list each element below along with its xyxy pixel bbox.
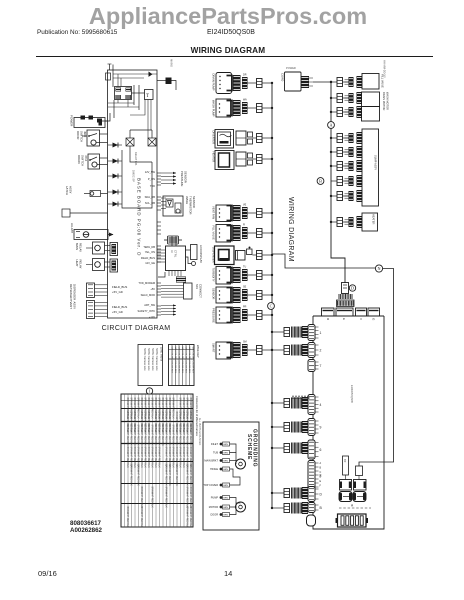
svg-text:BRN WHT RED BLK: BRN WHT RED BLK	[140, 487, 142, 509]
svg-text:WIRING DIAGRAM: WIRING DIAGRAM	[287, 197, 294, 262]
inline connector feed 9	[284, 423, 290, 432]
svg-text:GRN: GRN	[223, 485, 228, 487]
svg-text:BRN WHT RED BLK: BRN WHT RED BLK	[182, 425, 184, 447]
svg-text:7: 7	[320, 364, 322, 368]
wire right row b y181	[343, 180, 350, 182]
svg-text:FILL VALVE: FILL VALVE	[212, 226, 216, 240]
wire elbow bottom left	[100, 113, 110, 121]
svg-text:BRN WHT RED BLK: BRN WHT RED BLK	[126, 447, 128, 469]
connector stack right a y152	[349, 147, 354, 157]
wire right row b y152	[343, 151, 350, 153]
svg-text:SWITCH: SWITCH	[81, 155, 85, 166]
svg-text:WIR COLOR: WIR COLOR	[174, 347, 176, 360]
S01 connector	[184, 283, 193, 299]
inline connector DIVERTER	[257, 134, 263, 143]
wire VENT FAN to bus	[248, 212, 257, 214]
svg-text:+5V_GD: +5V_GD	[112, 290, 123, 294]
svg-text:SCHEME: SCHEME	[246, 434, 252, 460]
wire feed 9	[272, 426, 284, 428]
svg-text:EI24ID50QS0B: EI24ID50QS0B	[350, 385, 354, 403]
svg-text:RELAY: RELAY	[79, 260, 83, 269]
wire SMART bus join	[262, 349, 272, 351]
rounded end connector	[307, 515, 316, 526]
svg-text:BRN WHT RED BLK: BRN WHT RED BLK	[172, 425, 174, 447]
wire DISPENSER to bus	[253, 254, 257, 256]
wire TURBIDITY to bus	[248, 274, 257, 276]
board bottom inner labels	[112, 285, 127, 314]
junction FILL VALVE	[271, 232, 273, 234]
svg-text:BRN WHT RED BLK: BRN WHT RED BLK	[126, 507, 128, 529]
wire DRAIN PUMP to bus	[248, 82, 257, 84]
svg-text:BRN WHT RED BLK: BRN WHT RED BLK	[151, 487, 153, 509]
main board outline	[313, 316, 384, 529]
wire DISPENSER bus join	[262, 254, 272, 256]
svg-text:BRN WHT RED BLK: BRN WHT RED BLK	[137, 398, 139, 420]
svg-text:MAIN: MAIN	[75, 243, 79, 250]
aux box left	[62, 209, 70, 217]
secondary connector SENSOR	[242, 289, 248, 301]
wire SMART to bus	[248, 349, 257, 351]
wire DRAIN PUMP bus join	[262, 82, 272, 84]
wire feed D	[272, 492, 284, 494]
svg-text:BRN WHT RED BLK: BRN WHT RED BLK	[179, 447, 181, 469]
secondary connector SMART	[242, 344, 248, 356]
svg-text:S01: S01	[195, 284, 199, 289]
board top connector E	[336, 308, 353, 316]
svg-text:BRN WHT RED BLK: BRN WHT RED BLK	[140, 425, 142, 447]
svg-text:SHLD_MOD: SHLD_MOD	[141, 293, 156, 297]
svg-text:DRAIN PUMP: DRAIN PUMP	[212, 74, 216, 91]
wire HEATER bus join	[262, 158, 272, 160]
board edge connector B	[308, 503, 315, 513]
svg-text:09/16: 09/16	[38, 569, 57, 578]
UI bottom connector	[176, 277, 186, 283]
dark mark J1	[97, 119, 102, 123]
svg-text:WA: WA	[243, 99, 247, 102]
svg-text:BRN WHT RED BLK: BRN WHT RED BLK	[189, 465, 191, 487]
svg-text:SDA_DB: SDA_DB	[145, 195, 156, 199]
turbidity sensor assembly	[163, 196, 183, 216]
pin ticks 7	[315, 362, 319, 369]
svg-text:WIR COLOR: WIR COLOR	[188, 347, 190, 360]
svg-text:GRN: GRN	[223, 460, 228, 462]
secondary connector VENT FAN	[242, 207, 248, 219]
svg-text:THERMISTOR: THERMISTOR	[189, 196, 193, 214]
svg-text:B: B	[319, 179, 322, 184]
arrow marks harness	[292, 396, 310, 399]
svg-text:T: T	[146, 94, 149, 99]
grounding scheme box	[203, 422, 259, 530]
inline connector feed B	[284, 504, 290, 513]
board edge connector 2	[308, 343, 315, 358]
junction TURBIDITY	[271, 274, 273, 276]
svg-text:DOOR: DOOR	[211, 514, 219, 517]
inline connector DRAIN PUMP	[257, 79, 263, 88]
svg-text:NOTE: harness wire: NOTE: harness wire	[151, 348, 154, 371]
connector stack PRESSURE	[233, 307, 241, 323]
circle marker D	[349, 285, 355, 291]
connector stack feed D	[302, 487, 308, 499]
harness comb 1	[292, 327, 302, 338]
svg-text:RELAY: RELAY	[79, 243, 83, 252]
svg-text:BRN WHT RED BLK: BRN WHT RED BLK	[186, 425, 188, 447]
wire thermal to bus	[108, 234, 113, 236]
component FILL VALVE	[216, 225, 231, 243]
svg-text:BRN WHT RED BLK: BRN WHT RED BLK	[175, 465, 177, 487]
wire right row b y138	[343, 137, 350, 139]
power supply connector	[301, 76, 309, 88]
terminal block top right	[166, 78, 172, 85]
svg-text:DIVERTER: DIVERTER	[212, 131, 216, 145]
inline connector VENT FAN	[257, 209, 263, 218]
svg-text:WIRE KEY: WIRE KEY	[196, 345, 200, 358]
inline connector right y138	[337, 134, 343, 143]
component DRAIN PUMP	[216, 73, 232, 94]
component fill valve right	[362, 74, 379, 90]
secondary connector DRAIN PUMP	[242, 77, 248, 89]
inline connector right y181	[337, 177, 343, 186]
svg-text:A00262862: A00262862	[70, 527, 103, 534]
connector bracket WASH PUMP	[227, 101, 233, 116]
pin letters connector 8	[320, 462, 322, 488]
svg-text:DRAIN: DRAIN	[77, 155, 81, 164]
svg-text:TXD_MODEM: TXD_MODEM	[138, 281, 155, 285]
connector stack right a y138	[349, 133, 354, 143]
junction SMART	[271, 349, 273, 351]
UI control block	[166, 246, 186, 271]
stub wires above board	[109, 64, 111, 70]
wire right row y166	[331, 165, 337, 167]
pin ticks D	[315, 489, 319, 499]
wire top pair a	[113, 73, 157, 75]
relay K2 contact	[148, 138, 156, 146]
svg-text:HINGE: HINGE	[210, 468, 218, 471]
wire mid b	[108, 106, 139, 108]
svg-text:UI: UI	[170, 250, 174, 253]
svg-text:NOTE: harness wire: NOTE: harness wire	[155, 348, 158, 371]
connector stack feed 6	[302, 442, 308, 454]
board edge connector 9	[308, 419, 315, 436]
secondary connector TURBIDITY	[242, 269, 248, 281]
svg-text:1: 1	[320, 331, 322, 335]
svg-text:12V_GE: 12V_GE	[145, 261, 155, 265]
connector stack right b y98	[357, 92, 363, 104]
inline connector feed D	[284, 489, 290, 498]
svg-text:GRN: GRN	[223, 444, 228, 446]
svg-text:+12V: +12V	[149, 315, 155, 319]
connector bracket FILL VALVE	[227, 226, 233, 241]
svg-text:BRN WHT RED BLK: BRN WHT RED BLK	[133, 425, 135, 447]
ground lug 2	[236, 502, 246, 512]
capsule connector RY3	[339, 492, 352, 502]
sub circuit rect	[122, 150, 152, 208]
pin hatch y152	[345, 150, 349, 154]
svg-text:BRN WHT RED BLK: BRN WHT RED BLK	[133, 447, 135, 469]
wire TURBIDITY bus join	[262, 274, 272, 276]
wire right row b y98	[343, 97, 350, 99]
connector stack feed 9	[302, 421, 308, 433]
wire right row y112	[331, 111, 337, 113]
svg-text:COLOR KEY: COLOR KEY	[188, 361, 190, 374]
circle marker row 181	[317, 178, 324, 185]
svg-text:BRN WHT RED BLK: BRN WHT RED BLK	[189, 507, 191, 529]
connector stack FILL VALVE	[233, 225, 241, 241]
float switch box	[88, 154, 100, 169]
wire right row y152	[331, 151, 337, 153]
svg-text:SMART: SMART	[212, 343, 216, 353]
fuse F1	[106, 73, 111, 80]
svg-text:BRN WHT RED BLK: BRN WHT RED BLK	[179, 425, 181, 447]
connector stack feed 4	[302, 397, 308, 409]
relay module MAIN RELAY	[93, 242, 105, 254]
svg-text:TOP COVER: TOP COVER	[203, 484, 218, 487]
svg-text:VENT: VENT	[69, 302, 73, 310]
component WASH PUMP	[216, 99, 231, 117]
power cord box	[74, 118, 105, 128]
line view note box	[138, 345, 163, 386]
junction WASH PUMP	[271, 107, 273, 109]
svg-text:SCL_DB: SCL_DB	[145, 201, 155, 205]
svg-text:GRN: GRN	[223, 514, 228, 516]
connector stack SMART	[233, 342, 241, 358]
inline connector SENSOR	[257, 291, 263, 300]
inline connector right y196	[337, 192, 343, 201]
svg-text:A: A	[329, 123, 332, 128]
component HEATER	[215, 151, 234, 170]
svg-text:TU: TU	[243, 266, 246, 269]
mating connector DISPENSER	[236, 251, 246, 261]
ffc comb small	[339, 294, 352, 299]
svg-text:C: C	[320, 471, 322, 474]
connector bracket SENSOR	[227, 288, 233, 303]
svg-text:GRN: GRN	[223, 507, 228, 509]
wire DIVERTER to bus	[253, 137, 257, 139]
wire T1 down	[147, 100, 149, 139]
svg-text:P_ON: P_ON	[148, 177, 155, 181]
harness comb 4	[292, 398, 302, 409]
svg-text:808036617: 808036617	[70, 520, 102, 527]
wire right row y82	[331, 81, 337, 83]
board top connector V	[356, 308, 367, 316]
svg-text:ART_SW: ART_SW	[144, 303, 155, 307]
connector stack feed 1	[302, 326, 308, 338]
door switch circle	[91, 140, 96, 145]
svg-text:PUMP: PUMP	[211, 497, 219, 500]
svg-text:YEL_ON: YEL_ON	[145, 250, 155, 254]
pin hatch y112	[345, 110, 349, 114]
component DIVERTER	[215, 130, 234, 149]
pin hatch y138	[345, 136, 349, 140]
wiring table	[121, 394, 193, 527]
pin ticks B	[315, 505, 319, 510]
svg-text:FIELD_BUS: FIELD_BUS	[141, 256, 155, 260]
wire top pair b	[113, 77, 144, 79]
svg-text:FI: FI	[243, 224, 245, 227]
wire right row b y196	[343, 195, 350, 197]
connector stack right b y222	[357, 216, 363, 228]
inline connector PRESSURE	[257, 311, 263, 320]
svg-text:WIR COLOR: WIR COLOR	[171, 347, 173, 360]
wire WASH PUMP to bus	[248, 107, 257, 109]
svg-text:CORD: CORD	[281, 73, 285, 81]
svg-text:BRN WHT RED BLK: BRN WHT RED BLK	[168, 465, 170, 487]
component TURBIDITY	[216, 267, 231, 285]
svg-text:MAIN BRKT: MAIN BRKT	[204, 460, 218, 463]
wire VENT FAN bus join	[262, 212, 272, 214]
harness comb B	[292, 503, 302, 514]
grounding wires upper	[230, 444, 237, 453]
svg-text:LINE VIEW: LINE VIEW	[160, 347, 164, 362]
bus wire left main	[271, 83, 273, 508]
wire power to bus2	[313, 81, 331, 83]
base board pin name labels	[138, 170, 156, 319]
svg-text:BRN WHT RED BLK: BRN WHT RED BLK	[168, 425, 170, 447]
junction SENSOR	[271, 294, 273, 296]
wire relay top	[129, 130, 131, 138]
wire right row b y222	[343, 221, 350, 223]
pin hatch y196	[345, 194, 349, 198]
svg-text:+5V_GD: +5V_GD	[112, 310, 123, 314]
connector stack right a y98	[349, 93, 354, 103]
wire mid a	[108, 102, 134, 104]
board edge connector 1	[308, 325, 315, 341]
svg-text:BRN WHT RED BLK: BRN WHT RED BLK	[186, 487, 188, 509]
selector potentiometer	[164, 236, 182, 244]
svg-text:BRN WHT RED BLK: BRN WHT RED BLK	[154, 447, 156, 469]
svg-text:NOTE: harness wire: NOTE: harness wire	[147, 348, 150, 371]
board edge connector D	[308, 487, 315, 502]
svg-text:BZ: BZ	[343, 459, 347, 463]
svg-text:BRN WHT RED BLK: BRN WHT RED BLK	[144, 425, 146, 447]
pin hatch y222	[345, 220, 349, 224]
junction PRESSURE	[271, 314, 273, 316]
svg-text:BRN WHT RED BLK: BRN WHT RED BLK	[172, 447, 174, 469]
component drain motor right	[362, 92, 380, 107]
relay K1 contact	[126, 138, 134, 146]
pressure sensor wires	[161, 172, 176, 185]
svg-text:BRN WHT RED BLK: BRN WHT RED BLK	[165, 487, 167, 509]
wire PRESSURE to bus	[248, 314, 257, 316]
wire feed B	[272, 507, 284, 509]
svg-text:BRN WHT RED BLK: BRN WHT RED BLK	[151, 398, 153, 420]
wire filter down a	[117, 100, 119, 104]
svg-text:14: 14	[224, 569, 232, 578]
wire L1 top	[112, 70, 114, 87]
diode group on bus	[108, 143, 122, 207]
svg-text:E: E	[342, 318, 346, 320]
relay connector MAIN RELAY	[110, 243, 118, 256]
relay RY2	[354, 480, 367, 491]
connector stack DRAIN PUMP	[233, 75, 241, 91]
svg-text:12V_SW: 12V_SW	[145, 170, 156, 174]
component PRESSURE	[216, 307, 231, 323]
lower arrows from board	[161, 304, 176, 315]
mini key table	[169, 345, 195, 386]
svg-text:GRN: GRN	[223, 469, 228, 471]
svg-text:VENT FAN: VENT FAN	[212, 206, 216, 219]
svg-text:SWITCH: SWITCH	[80, 131, 84, 142]
wire vert x145	[130, 100, 145, 116]
svg-text:PR: PR	[243, 306, 247, 309]
svg-text:1: 1	[148, 389, 150, 394]
svg-text:SENSOR: SENSOR	[192, 196, 196, 208]
svg-text:WASH: WASH	[185, 196, 189, 204]
svg-text:ASSY: ASSY	[73, 302, 77, 310]
svg-text:BRN WHT RED BLK: BRN WHT RED BLK	[158, 425, 160, 447]
svg-text:MOTOR: MOTOR	[209, 506, 218, 509]
wire float switch to board	[100, 157, 108, 159]
svg-text:INLET: INLET	[211, 443, 219, 446]
svg-text:AppliancePartsPros.com: AppliancePartsPros.com	[89, 3, 367, 29]
inline connector right y166	[337, 162, 343, 171]
svg-text:MAINS: MAINS	[170, 59, 173, 67]
connector stack feed 2	[302, 344, 308, 356]
connector strip VENT	[87, 301, 95, 319]
connector bracket TURBIDITY	[227, 268, 233, 283]
long feed wire from left	[272, 254, 345, 268]
svg-text:RELAY K01: RELAY K01	[134, 152, 138, 166]
svg-text:+5V: +5V	[150, 287, 155, 291]
connector bracket SMART	[227, 343, 233, 358]
float switch circle	[92, 162, 97, 167]
connector stack right a y82	[349, 77, 354, 87]
relay connector HEAT RELAY	[110, 259, 118, 272]
svg-text:DETERGENT: DETERGENT	[69, 284, 73, 302]
svg-text:BRN WHT RED BLK: BRN WHT RED BLK	[172, 398, 174, 420]
connector stack VENT FAN	[233, 205, 241, 221]
harness comb 6	[292, 443, 302, 454]
inline connector feed 1	[284, 328, 290, 337]
LCD display box	[191, 245, 198, 260]
door switch contact	[89, 134, 97, 137]
ffc comb wide	[337, 300, 355, 307]
mating connector HEATER	[236, 152, 246, 166]
connector bracket DRAIN PUMP	[227, 76, 233, 91]
power cord terminals	[81, 116, 86, 120]
svg-text:SM: SM	[243, 341, 247, 344]
harness comb 2	[292, 345, 302, 356]
connector stack right a y196	[349, 191, 354, 201]
svg-text:CIRCUIT DIAGRAM: CIRCUIT DIAGRAM	[102, 325, 171, 332]
relay module HEAT RELAY	[93, 259, 105, 271]
svg-text:BRN WHT RED BLK: BRN WHT RED BLK	[186, 507, 188, 529]
wire right row y196	[331, 195, 337, 197]
inline connector feed 4	[284, 399, 290, 408]
transformer T1	[145, 90, 154, 100]
svg-text:SENSOR: SENSOR	[212, 288, 216, 299]
svg-text:BRN WHT RED BLK: BRN WHT RED BLK	[186, 465, 188, 487]
svg-text:LCD DISPLAY: LCD DISPLAY	[199, 245, 203, 263]
svg-text:BRN WHT RED BLK: BRN WHT RED BLK	[151, 447, 153, 469]
wire T1 down b	[150, 100, 152, 131]
svg-text:BRN WHT RED BLK: BRN WHT RED BLK	[130, 465, 132, 487]
svg-text:BRN WHT RED BLK: BRN WHT RED BLK	[147, 425, 149, 447]
svg-text:DISPENSER: DISPENSER	[212, 247, 216, 263]
svg-text:DISPENSER: DISPENSER	[73, 284, 77, 300]
mating connector DIVERTER	[236, 131, 246, 145]
connector strip DETERGENT	[87, 283, 95, 297]
svg-text:4: 4	[320, 403, 322, 407]
wire vert x118	[117, 74, 119, 87]
component SENSOR	[216, 287, 231, 303]
svg-text:HEATER: HEATER	[212, 152, 216, 163]
circle marker on right bus	[328, 122, 335, 129]
svg-text:TXD: TXD	[150, 184, 155, 188]
svg-text:D: D	[320, 476, 322, 479]
table cell text	[126, 398, 191, 529]
svg-text:PRESSURE: PRESSURE	[180, 171, 184, 187]
svg-text:6: 6	[320, 448, 322, 452]
